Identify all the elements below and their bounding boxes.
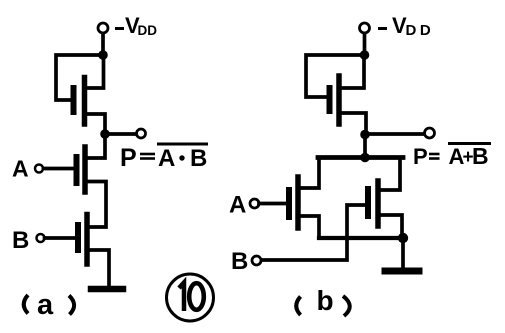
svg-text:P: P — [120, 144, 137, 172]
svg-text:A: A — [12, 156, 29, 182]
svg-text:B: B — [12, 227, 29, 254]
svg-text:DD: DD — [406, 22, 435, 39]
svg-text:B: B — [190, 145, 207, 172]
svg-text:B: B — [231, 248, 248, 275]
svg-text:A: A — [158, 145, 175, 172]
svg-text:P: P — [413, 144, 428, 169]
svg-text:B: B — [472, 143, 489, 169]
svg-text:A: A — [229, 192, 246, 219]
svg-text:DD: DD — [138, 23, 158, 38]
svg-text:b: b — [317, 285, 334, 316]
svg-text:a: a — [37, 289, 54, 321]
